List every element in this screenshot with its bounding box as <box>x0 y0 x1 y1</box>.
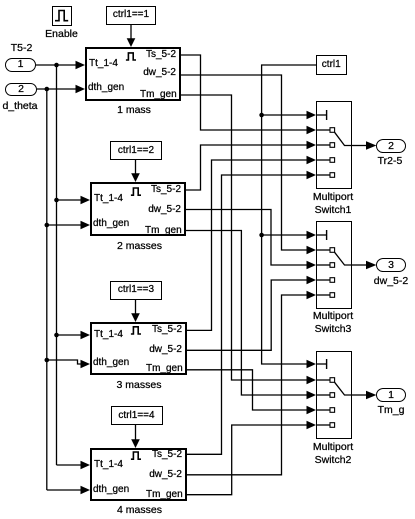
port label dw_5-2 (2 masses) <box>145 204 181 216</box>
arrowhead enable 4 masses <box>131 439 140 448</box>
arrowhead into 3 masses Tt <box>81 331 91 339</box>
multiport switch 3 box <box>316 221 352 309</box>
label dw_5-2 out <box>371 275 411 287</box>
wire ctrl1==2 stem <box>135 160 137 175</box>
wire dw3 <box>187 280 308 350</box>
switch3 control stub and tick <box>316 234 326 236</box>
constant ctrl1==4 <box>111 406 163 425</box>
port label Tm_gen (2 masses) <box>145 225 181 237</box>
label Enable <box>43 28 80 40</box>
outport 3 <box>376 258 406 272</box>
subsystem 4 masses <box>90 448 187 501</box>
port label Tm_gen (1 mass) <box>140 89 176 101</box>
pulse icon 3 masses <box>131 327 141 334</box>
inport 2 <box>5 83 37 97</box>
subsystem 1 mass <box>85 47 181 101</box>
inport 1 <box>5 58 36 72</box>
label Multiport Switch1 <box>303 191 363 217</box>
port label dw_5-2 (1 mass) <box>140 67 176 79</box>
constant ctrl1==1 <box>106 6 156 25</box>
enable pulse icon <box>55 11 68 21</box>
wire Ts3 <box>187 160 308 330</box>
enable block <box>52 6 73 27</box>
junction dot ctrl1 switch3 <box>259 233 264 238</box>
wire T5-2 branch to 2 masses <box>57 199 83 201</box>
arrowheads into switch3 <box>307 231 317 239</box>
wire inport1 to 1 mass <box>36 64 77 66</box>
wire Ts1 <box>181 55 308 130</box>
wire d_theta vertical <box>46 89 48 490</box>
wire dw4 <box>187 295 308 475</box>
arrowhead enable 1 mass <box>127 38 136 47</box>
port label dth_gen (3 masses) <box>93 357 129 369</box>
wire Tm1 <box>181 95 308 380</box>
port label dth_gen (2 masses) <box>93 218 129 230</box>
wire Ts4 <box>187 175 308 454</box>
port label dth_gen (4 masses) <box>93 484 129 496</box>
wire ctrl1==3 stem <box>135 300 137 316</box>
arrowhead into outport 2 <box>366 141 376 149</box>
wire T5-2 elbow to 4 masses <box>57 464 83 466</box>
wire d_theta branch to 2 masses <box>47 224 82 226</box>
arrowhead enable 3 masses <box>131 313 140 322</box>
switch3 selector diagonal <box>335 252 352 265</box>
switch2 control stub and tick <box>316 363 326 365</box>
port label dth_gen (1 mass) <box>88 82 124 94</box>
pulse icon 1 mass <box>126 53 136 60</box>
wire dw2 <box>186 210 308 266</box>
label 3 masses <box>109 379 169 391</box>
switch1 control stub and tick <box>316 114 326 116</box>
port label Ts_5-2 (2 masses) <box>145 184 181 196</box>
subsystem 3 masses <box>90 322 187 375</box>
arrowhead into outport 1 <box>366 391 376 399</box>
label d_theta <box>0 100 40 112</box>
switch1 data stubs <box>316 129 330 131</box>
wire T5-2 branch to 3 masses <box>57 334 83 336</box>
label 4 masses <box>110 504 170 516</box>
switch2 selector diagonal <box>335 382 352 395</box>
pulse icon 2 masses <box>131 188 141 195</box>
arrowhead into 4 masses Tt <box>81 461 91 469</box>
switch2 data stubs <box>316 379 330 381</box>
port label Tt_1-4 (3 masses) <box>94 329 123 341</box>
wire switch3 to outport 3 <box>352 264 368 266</box>
arrowhead into 2 masses dth <box>81 221 91 229</box>
wire ctrl1 branch switch1 <box>262 114 308 116</box>
label Multiport Switch3 <box>303 310 363 336</box>
pulse icon 4 masses <box>131 452 141 459</box>
wire switch2 to outport 1 <box>352 394 368 396</box>
label Multiport Switch2 <box>303 441 363 467</box>
junction dot ctrl1 switch1 <box>259 113 264 118</box>
port label dw_5-2 (3 masses) <box>146 344 182 356</box>
wire ctrl1 main <box>262 65 316 364</box>
port label Ts_5-2 (1 mass) <box>140 49 176 61</box>
wire d_theta elbow to 4 masses <box>47 489 82 491</box>
port label Tt_1-4 (2 masses) <box>94 193 123 205</box>
port label Ts_5-2 (3 masses) <box>146 324 182 336</box>
arrowheads into switch2 <box>307 360 317 368</box>
arrowhead into 3 masses dth <box>81 360 91 368</box>
switch3 port squares <box>330 248 335 253</box>
arrowheads into switch1 <box>307 111 317 119</box>
label 1 mass <box>104 104 164 116</box>
outport 2 <box>376 139 406 153</box>
multiport switch 2 box <box>316 351 352 440</box>
junction dot d_theta at 2 masses <box>45 223 50 228</box>
goto tag ctrl1 <box>316 55 347 75</box>
arrowhead enable 2 masses <box>131 173 140 182</box>
label Tm_g <box>371 404 411 416</box>
label Tr2-5 <box>370 155 410 167</box>
constant ctrl1==2 <box>110 141 162 161</box>
junction dot in2 <box>45 87 50 92</box>
wire d_theta branch to 3 masses <box>47 360 82 364</box>
port label Tm_gen (3 masses) <box>146 363 182 375</box>
arrowhead into 1 mass dth <box>76 85 86 93</box>
label T5-2 <box>4 42 39 54</box>
switch1 selector diagonal <box>335 132 352 145</box>
wire switch1 to outport 2 <box>352 145 368 147</box>
port label Tt_1-4 (4 masses) <box>94 459 123 471</box>
junction dot in1 <box>54 63 59 68</box>
port label dw_5-2 (4 masses) <box>146 469 182 481</box>
wire dw1 <box>181 75 308 250</box>
junction dot T5-2 at 3 masses <box>54 333 59 338</box>
switch2 port squares <box>330 378 335 383</box>
constant ctrl1==3 <box>110 281 162 300</box>
wire ctrl1 branch switch3 <box>262 234 308 236</box>
outport 1 <box>376 388 406 402</box>
wire inport2 to 1 mass <box>37 88 77 90</box>
arrowhead into outport 3 <box>366 261 376 269</box>
arrowhead into 2 masses Tt <box>81 196 91 204</box>
switch3 data stubs <box>316 249 330 251</box>
wire T5-2 vertical <box>56 65 58 465</box>
label 2 masses <box>110 240 170 252</box>
port label Tt_1-4 (1 mass) <box>89 58 118 70</box>
multiport switch 1 box <box>316 101 352 189</box>
subsystem 2 masses <box>90 182 186 236</box>
junction dot d_theta at 3 masses <box>45 358 50 363</box>
wire ctrl1==4 stem <box>135 425 137 441</box>
port label Ts_5-2 (4 masses) <box>146 449 182 461</box>
arrowhead into 4 masses dth <box>81 486 91 494</box>
port label Tm_gen (4 masses) <box>146 489 182 501</box>
junction dot T5-2 at 2 masses <box>54 198 59 203</box>
wire Tm4 <box>187 425 308 495</box>
arrowhead into 1 mass Tt <box>76 61 86 69</box>
wire Tm3 <box>187 370 308 410</box>
wire Ts2 <box>186 145 308 190</box>
wire ctrl1==1 stem <box>130 25 132 40</box>
wire Tm2 <box>186 231 308 396</box>
switch1 port squares <box>330 128 335 133</box>
